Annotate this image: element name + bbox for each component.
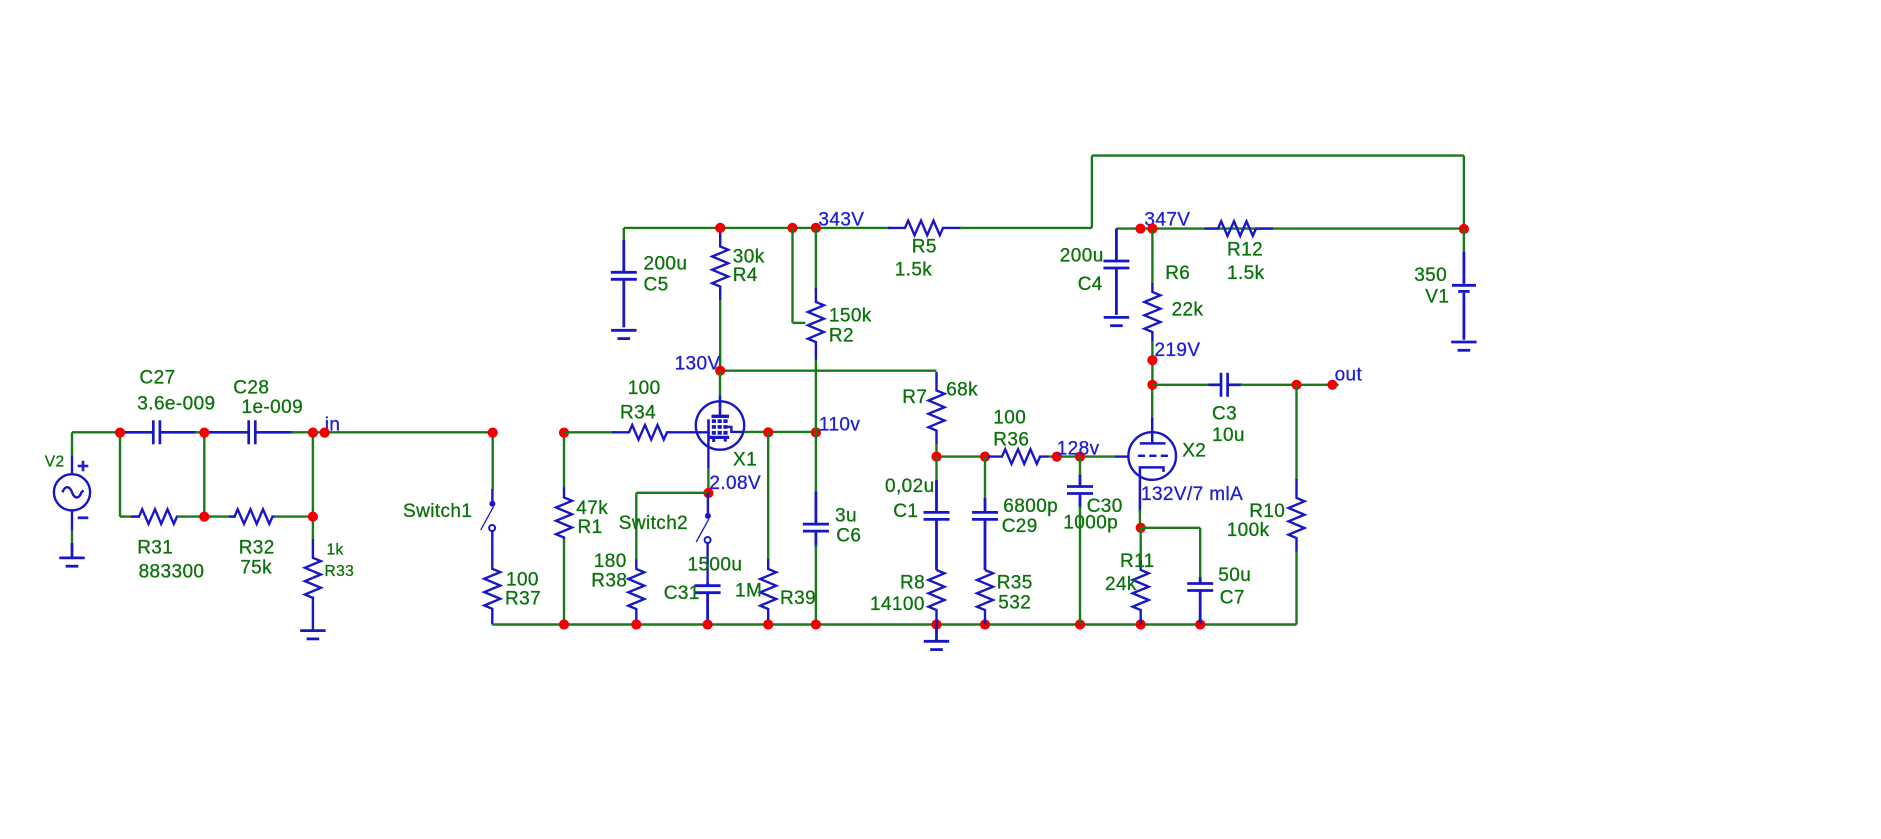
svg-text:C27: C27 <box>140 368 176 389</box>
wire bottom rail <box>492 623 1296 625</box>
capacitor C28 <box>209 420 294 444</box>
junction 2.08V node <box>703 488 713 498</box>
wire between C27 and C28 <box>195 431 212 433</box>
wire R2 bottom to 110v <box>815 360 817 433</box>
wire R33 top <box>312 517 314 541</box>
junction node-C29 <box>980 452 990 462</box>
wire 2.08V node left <box>636 492 708 494</box>
svg-text:R31: R31 <box>137 538 173 559</box>
junction R31-R32 <box>199 511 209 521</box>
wire R2 stub horizontal <box>793 322 806 324</box>
wire C29 top <box>984 457 986 500</box>
svg-text:10u: 10u <box>1212 425 1245 446</box>
svg-text:out: out <box>1335 365 1363 386</box>
svg-text:100k: 100k <box>1227 520 1270 541</box>
wire 110v down to C6 <box>815 432 817 493</box>
wire main row from V2 to C27 <box>72 431 126 433</box>
wire V1 top green <box>1463 229 1465 252</box>
ground under rail <box>924 625 949 650</box>
switch Switch1 <box>481 501 496 531</box>
wire C6 to rail <box>815 545 817 625</box>
junction 128v anchor <box>1052 452 1062 462</box>
junction R32-R33 <box>308 511 318 521</box>
wire right drop to R32 <box>312 432 314 516</box>
svg-text:0,02u: 0,02u <box>885 476 935 497</box>
svg-text:3u: 3u <box>835 506 857 527</box>
junction 347V-R6 <box>1147 224 1157 234</box>
svg-text:200u: 200u <box>644 254 688 275</box>
junction 128v cathode node <box>1136 523 1146 533</box>
wire C7 top <box>1199 528 1201 579</box>
junction rail-R4 <box>715 223 725 233</box>
svg-text:R35: R35 <box>997 573 1033 594</box>
junction rail-R2stub <box>787 223 797 233</box>
wire C3 to out <box>1241 384 1339 386</box>
svg-text:130V: 130V <box>675 354 721 375</box>
svg-text:Switch1: Switch1 <box>403 501 472 522</box>
capacitor C29 <box>972 498 998 570</box>
svg-text:3.6e-009: 3.6e-009 <box>137 394 215 415</box>
svg-text:1500u: 1500u <box>688 555 743 576</box>
wire left drop to R31 <box>119 432 121 516</box>
wire node row left <box>937 455 991 457</box>
junction rail-R39 <box>763 619 773 629</box>
svg-text:C28: C28 <box>233 378 269 399</box>
wire R1 bottom <box>563 539 565 625</box>
resistor R36 <box>988 449 1049 464</box>
wire X1 plate top <box>719 371 721 396</box>
resistor R31 <box>131 509 178 524</box>
svg-text:1000p: 1000p <box>1063 513 1118 534</box>
resistor R12 <box>1205 221 1273 236</box>
junction rail-R35 <box>980 619 990 629</box>
svg-text:350: 350 <box>1414 265 1447 286</box>
wire R31 row left <box>120 515 140 517</box>
wire top loop up <box>1091 156 1093 228</box>
resistor R4 <box>712 230 728 300</box>
svg-text:100: 100 <box>506 570 539 591</box>
junction node-C30 <box>1075 452 1085 462</box>
V2 minus sign <box>78 516 89 519</box>
svg-text:219V: 219V <box>1155 340 1201 361</box>
svg-text:R37: R37 <box>505 589 541 610</box>
svg-text:C1: C1 <box>893 501 918 522</box>
junction 110v node <box>811 427 821 437</box>
ground under R33 <box>300 631 325 639</box>
wire 130V row <box>720 370 936 372</box>
junction rail-C7 <box>1195 619 1205 629</box>
wire R2 top <box>815 228 817 290</box>
svg-text:200u: 200u <box>1060 246 1104 267</box>
junction 347V anchor <box>1135 224 1145 234</box>
junction main-R1 <box>559 428 569 438</box>
wire Switch1 top <box>492 432 494 490</box>
lead Switch1 to R37 <box>491 531 493 570</box>
resistor R5 <box>888 221 962 236</box>
svg-text:C31: C31 <box>664 583 700 604</box>
wire R10 top <box>1295 385 1297 480</box>
junction rail-C6 <box>811 619 821 629</box>
svg-text:R6: R6 <box>1165 263 1190 284</box>
lead Switch2 top <box>707 493 709 515</box>
capacitor C30 <box>1067 475 1093 508</box>
svg-text:V1: V1 <box>1425 287 1449 308</box>
wire R5 to top loop corner <box>960 227 1092 229</box>
svg-text:R36: R36 <box>993 430 1029 451</box>
svg-text:X1: X1 <box>733 450 757 471</box>
svg-text:1.5k: 1.5k <box>895 260 933 281</box>
wire down to R38 <box>635 493 637 561</box>
lead R33 to ground <box>312 597 314 631</box>
ground under V2 <box>59 543 84 566</box>
V2 plus sign <box>78 461 89 472</box>
junction rail-C30 <box>1075 619 1085 629</box>
svg-text:R33: R33 <box>325 563 355 580</box>
svg-text:1e-009: 1e-009 <box>242 397 304 418</box>
svg-text:75k: 75k <box>240 558 272 579</box>
svg-text:X2: X2 <box>1182 441 1206 462</box>
svg-text:1M: 1M <box>735 581 762 602</box>
capacitor C3 <box>1209 373 1243 397</box>
svg-text:R11: R11 <box>1120 551 1155 572</box>
wire R4 to 130V node <box>719 300 721 370</box>
lead Switch2 to C31 <box>706 543 708 582</box>
wire R31 to R32 <box>177 515 236 517</box>
resistor R6 <box>1144 283 1160 342</box>
wire V2 bottom <box>71 531 73 543</box>
svg-text:Switch2: Switch2 <box>619 513 688 534</box>
lead X1 cathode <box>707 441 709 469</box>
wire R39 top <box>767 432 769 560</box>
junction rail-R8 <box>931 619 941 629</box>
switch Switch2 <box>696 513 711 543</box>
junction C27-C28 <box>199 428 209 438</box>
wire X2 plate top <box>1151 385 1153 419</box>
svg-text:150k: 150k <box>829 306 872 327</box>
svg-text:22k: 22k <box>1172 300 1204 321</box>
resistor R10 <box>1289 479 1305 552</box>
svg-text:R12: R12 <box>1227 240 1263 261</box>
wire R1 top <box>563 432 565 489</box>
junction in label anchor <box>320 428 330 438</box>
ground under C4 <box>1104 317 1129 325</box>
battery V1 <box>1452 252 1476 340</box>
resistor R33 <box>305 539 321 598</box>
lead R34 to X1 grid <box>668 431 708 433</box>
svg-text:47k: 47k <box>576 498 608 519</box>
resistor R1 <box>556 488 572 541</box>
junction rail-R11 <box>1136 619 1146 629</box>
capacitor C7 <box>1187 577 1213 625</box>
wire 343V rail <box>624 227 890 229</box>
svg-text:68k: 68k <box>946 380 978 401</box>
wire X2 cathode to 128v node <box>1139 510 1141 528</box>
resistor R8 <box>929 570 945 625</box>
svg-text:110v: 110v <box>819 415 860 436</box>
svg-text:R38: R38 <box>591 571 627 592</box>
junction rail-R2 <box>811 223 821 233</box>
svg-text:R2: R2 <box>829 326 854 347</box>
wire V2 top <box>71 432 73 455</box>
resistor R39 <box>760 559 776 625</box>
triode X2 <box>1128 418 1176 512</box>
resistor R11 <box>1133 560 1149 625</box>
capacitor C31 <box>695 582 721 624</box>
resistor R34 <box>612 425 670 440</box>
wire top loop down to V1 <box>1463 156 1465 229</box>
junction rail-V1 <box>1459 224 1469 234</box>
wire X1 cathode to 2.08V node <box>707 469 709 493</box>
wire R10 to rail <box>1295 552 1297 625</box>
junction 219V anchor <box>1147 355 1157 365</box>
svg-text:V2: V2 <box>45 454 65 471</box>
wire R32 to R33 node <box>275 515 313 517</box>
svg-text:R39: R39 <box>780 588 816 609</box>
wire 219V to C3 <box>1152 384 1210 386</box>
wire C1 top <box>935 457 937 482</box>
resistor R7 <box>929 372 945 444</box>
wire C5 top <box>623 228 625 241</box>
resistor R2 <box>808 288 824 360</box>
svg-text:R4: R4 <box>733 265 758 286</box>
svg-text:R1: R1 <box>578 517 603 538</box>
svg-text:C6: C6 <box>836 526 861 547</box>
svg-text:R7: R7 <box>902 387 927 408</box>
svg-text:1.5k: 1.5k <box>1227 263 1265 284</box>
svg-text:343V: 343V <box>818 210 864 231</box>
lead Switch1 top <box>491 489 493 503</box>
junction node-C1 <box>931 452 941 462</box>
svg-text:R8: R8 <box>900 573 925 594</box>
svg-text:R10: R10 <box>1249 501 1285 522</box>
junction out-R10 <box>1291 380 1301 390</box>
svg-text:R5: R5 <box>912 237 937 258</box>
wire 347V rail <box>1116 227 1464 229</box>
junction in node <box>308 428 318 438</box>
junction X1 plate row <box>763 427 773 437</box>
wire R2 stub vertical <box>791 228 793 323</box>
svg-text:180: 180 <box>594 551 627 572</box>
wire C30 to rail <box>1079 506 1081 625</box>
svg-text:R32: R32 <box>239 538 275 559</box>
svg-text:1k: 1k <box>327 542 344 559</box>
svg-text:50u: 50u <box>1218 565 1251 586</box>
capacitor C4 <box>1103 229 1129 315</box>
voltage source V2 <box>54 456 90 531</box>
wire middle drop to R31-R32 junction <box>203 432 205 516</box>
ground under V1 <box>1451 342 1476 350</box>
ground under C5 <box>611 330 636 338</box>
wire rail to R6 <box>1151 229 1153 284</box>
resistor R32 <box>229 509 275 524</box>
wire 128v row <box>1140 527 1200 529</box>
junction main-Switch1 <box>488 428 498 438</box>
svg-text:C29: C29 <box>1002 516 1038 537</box>
resistor R37 <box>484 569 500 625</box>
capacitor C27 <box>122 420 197 444</box>
wire main to R34 <box>564 431 614 433</box>
svg-text:128v: 128v <box>1057 439 1100 460</box>
wire R7 to node row <box>935 444 937 457</box>
capacitor C1 <box>924 480 950 570</box>
junction rail-R38 <box>631 619 641 629</box>
wire top loop across <box>1092 154 1464 156</box>
junction main-C27 <box>115 428 125 438</box>
svg-text:14100: 14100 <box>870 594 925 615</box>
svg-text:24k: 24k <box>1105 574 1137 595</box>
junction 130V node <box>715 366 725 376</box>
wire R6 to 219V <box>1151 342 1153 385</box>
svg-text:C5: C5 <box>644 275 669 296</box>
junction rail-C31 <box>703 619 713 629</box>
wire 128v to R11 <box>1139 528 1141 561</box>
resistor R35 <box>977 570 993 625</box>
wire R36 to X2 grid <box>1049 455 1118 457</box>
wire X1 right to 110v node <box>744 431 816 433</box>
junction out anchor <box>1327 380 1337 390</box>
svg-text:100: 100 <box>993 408 1026 429</box>
svg-text:6800p: 6800p <box>1003 496 1058 517</box>
svg-text:C4: C4 <box>1078 274 1103 295</box>
svg-text:C3: C3 <box>1212 404 1237 425</box>
svg-text:C7: C7 <box>1220 588 1245 609</box>
svg-text:100: 100 <box>628 378 661 399</box>
wire main row C28 to Switch1 branch <box>291 431 493 433</box>
capacitor C5 <box>611 240 637 327</box>
capacitor C6 <box>803 492 829 548</box>
svg-text:R34: R34 <box>620 403 656 424</box>
lead X2 grid <box>1115 455 1129 457</box>
svg-text:2.08V: 2.08V <box>709 473 761 494</box>
svg-text:132V/7 mlA: 132V/7 mlA <box>1141 484 1243 505</box>
wire C30 top <box>1079 457 1081 477</box>
junction rail-R1 <box>559 619 569 629</box>
svg-text:532: 532 <box>998 593 1031 614</box>
junction 219V-out row <box>1147 380 1157 390</box>
svg-text:883300: 883300 <box>139 562 205 583</box>
resistor R38 <box>628 560 644 625</box>
triode X1 <box>696 395 744 450</box>
